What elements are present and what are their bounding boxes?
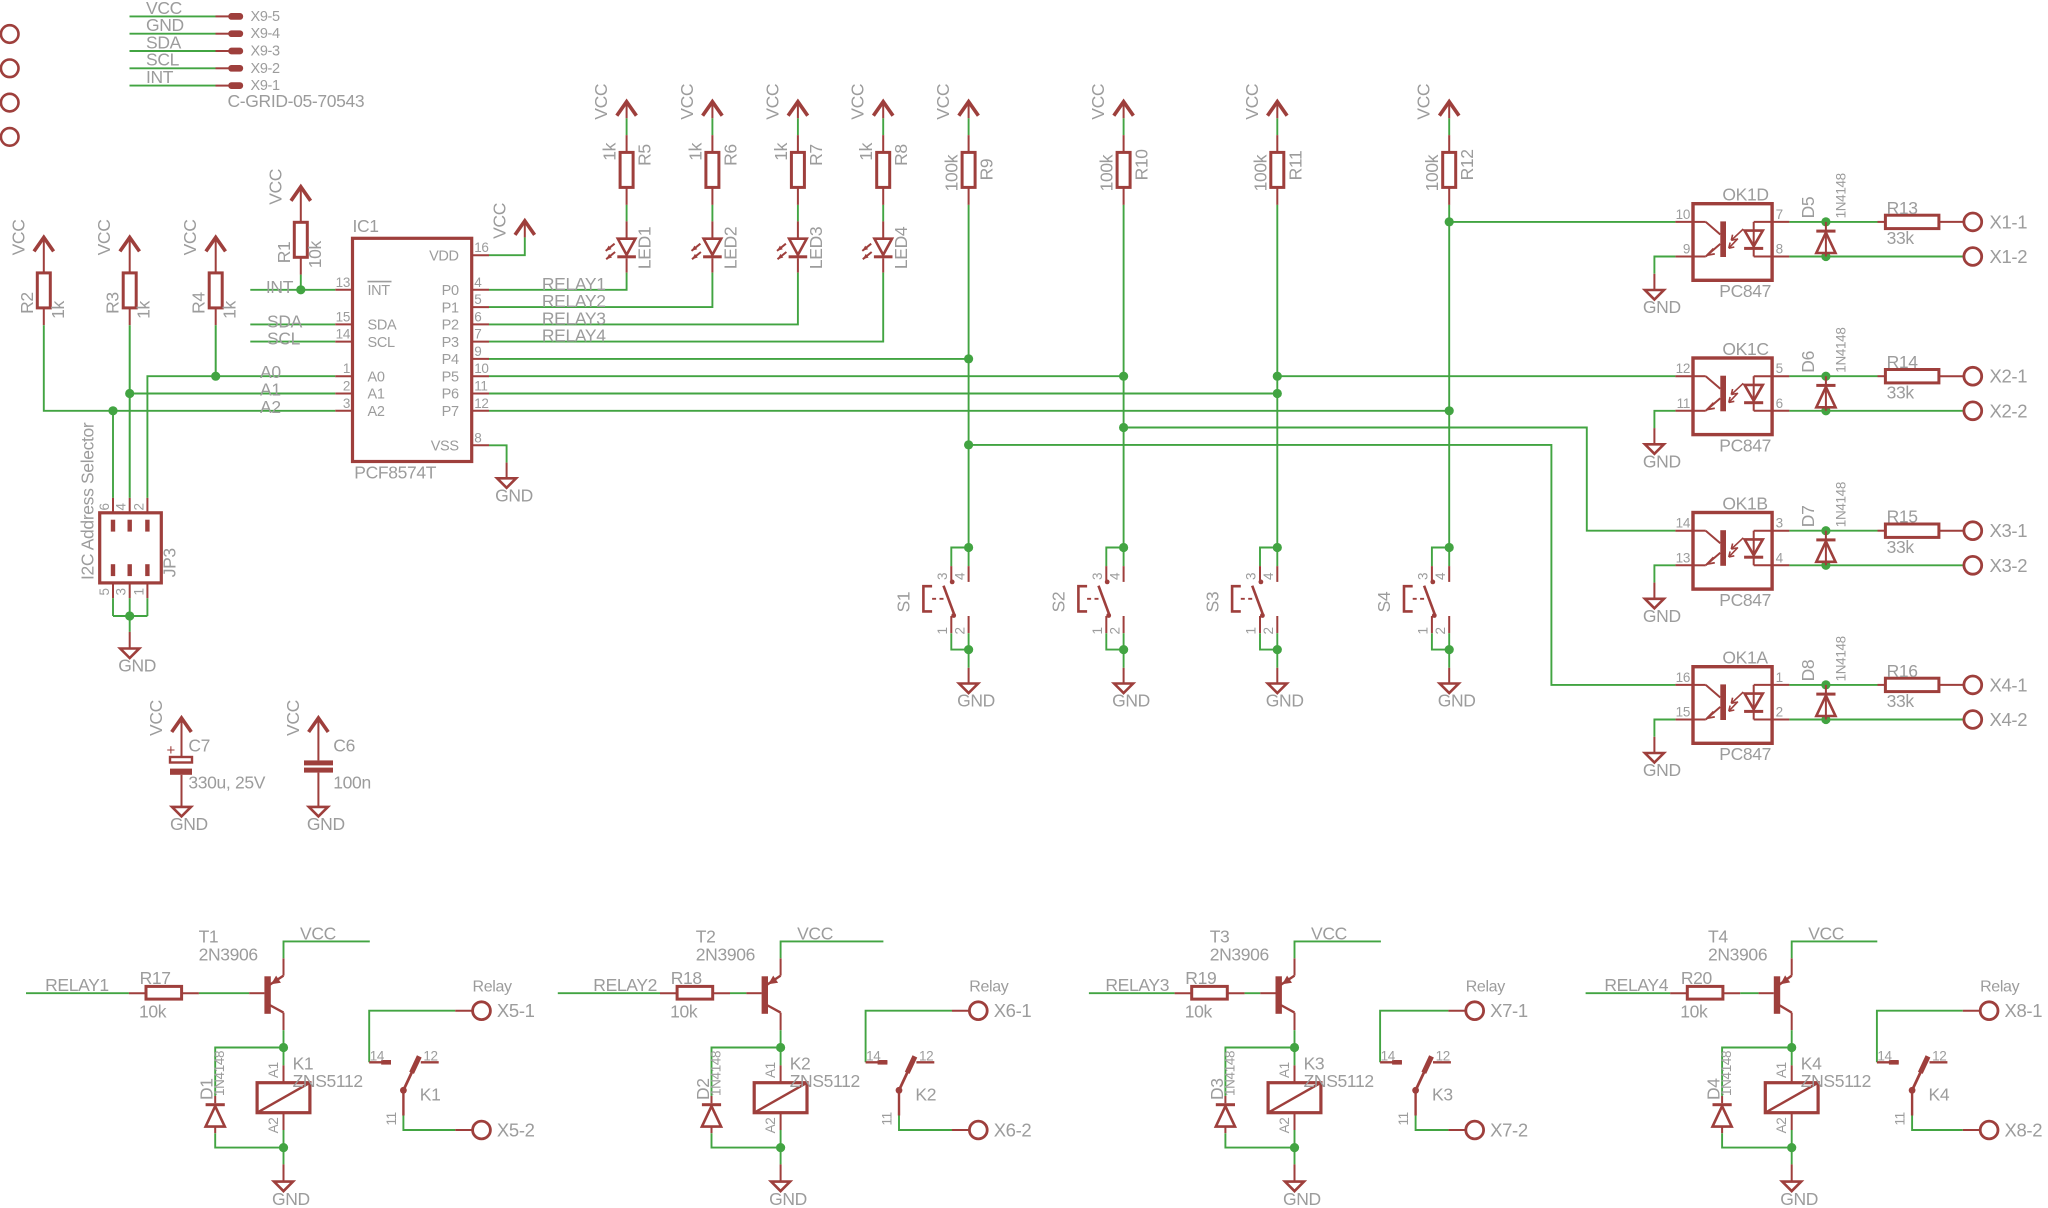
svg-text:VCC: VCC — [94, 219, 114, 255]
junction node K3 A2 — [1290, 1143, 1299, 1152]
wire net branch from R12 to optocoupler — [1449, 221, 1675, 223]
ground symbol at OK1D — [1645, 290, 1664, 300]
relay K1 contact pin 11 — [402, 1090, 404, 1115]
wire net OK1D anode row — [1789, 221, 1877, 223]
IC1 pin 1 A0 (left) — [335, 375, 352, 377]
IC1 pin 9 P4 (right) — [472, 358, 489, 360]
wire net VCC at T4 emitter — [1792, 941, 1878, 958]
svg-text:12: 12 — [1932, 1048, 1946, 1063]
svg-text:1N4148: 1N4148 — [1834, 327, 1849, 372]
IC1 pin 12 P7 (right) — [472, 410, 489, 412]
resistor R11 100k — [1271, 152, 1284, 187]
svg-text:R9: R9 — [977, 159, 997, 181]
wire net OK1B anode row — [1789, 530, 1877, 532]
wire D4 anode to A2 node — [1722, 1133, 1792, 1147]
JP3 pin 6 (top) and pin 5 (bottom) — [112, 498, 114, 513]
OK1B pin 3 (anode) — [1772, 530, 1789, 532]
svg-text:VCC: VCC — [283, 700, 303, 736]
svg-text:GND: GND — [1643, 297, 1681, 317]
svg-text:1k: 1k — [771, 142, 791, 160]
svg-text:K4: K4 — [1929, 1085, 1950, 1105]
svg-text:11: 11 — [384, 1112, 399, 1125]
svg-text:10: 10 — [1676, 207, 1690, 222]
svg-text:A1: A1 — [763, 1062, 778, 1078]
svg-text:4: 4 — [474, 275, 482, 290]
wire net from IC1 P-row to R9 — [489, 358, 969, 360]
svg-text:Relay: Relay — [1466, 978, 1506, 995]
svg-text:2: 2 — [952, 627, 967, 634]
pin wire below R3 — [129, 308, 131, 325]
svg-text:X7-1: X7-1 — [1490, 1000, 1528, 1021]
junction node K3 A1 — [1290, 1043, 1299, 1052]
OK1A pin 16 (collector) — [1675, 684, 1693, 686]
svg-text:100n: 100n — [333, 772, 371, 792]
svg-text:GND: GND — [1780, 1189, 1818, 1208]
svg-text:SCL: SCL — [267, 329, 301, 349]
svg-text:GND: GND — [118, 656, 156, 676]
connector pad X5-1 — [473, 1002, 491, 1020]
svg-text:9: 9 — [1683, 242, 1690, 257]
ground symbol below K1 — [274, 1182, 293, 1192]
ground symbol below S1 — [959, 684, 978, 694]
wire OK1C emitter to ground — [1654, 411, 1675, 428]
jumper block JP3 body — [100, 513, 162, 583]
svg-text:PCF8574T: PCF8574T — [354, 463, 436, 483]
OK1D pin 10 (collector) — [1675, 221, 1693, 223]
VCC supply symbol above R10 — [1114, 102, 1134, 116]
svg-text:6: 6 — [474, 309, 481, 324]
svg-text:VCC: VCC — [1242, 84, 1262, 120]
wire net relay contact 14 to pad X5-1 — [369, 1011, 455, 1063]
svg-text:PC847: PC847 — [1719, 435, 1771, 455]
switch S1 actuator bracket — [923, 586, 932, 611]
junction node K1 A1 — [279, 1043, 288, 1052]
pin wire below R2 — [43, 308, 45, 325]
relay K4 contact pin 12 — [1930, 1061, 1948, 1063]
pin wire R8 to LED4 — [882, 187, 884, 205]
wire net from IC1 P-row to R12 — [489, 410, 1449, 412]
VCC supply symbol above R3 — [120, 237, 140, 251]
svg-text:4: 4 — [1107, 572, 1122, 580]
svg-text:VCC: VCC — [1311, 923, 1347, 943]
svg-text:P7: P7 — [442, 404, 459, 420]
relay coil K2 ZNS5112 — [780, 1048, 782, 1066]
wire K3 A2 to ground — [1294, 1148, 1296, 1165]
diode D6 1N4148 — [1825, 376, 1827, 411]
IC1 pin 8 VSS (right) — [472, 444, 489, 446]
wire D3 anode to A2 node — [1225, 1133, 1294, 1147]
svg-text:R15: R15 — [1887, 507, 1918, 527]
switch S2 top connection — [1119, 543, 1128, 552]
transistor T2 2N3906 (PNP) — [762, 976, 768, 1014]
svg-text:R18: R18 — [671, 968, 702, 988]
resistor R14 33k — [1878, 375, 1886, 377]
svg-text:12: 12 — [1436, 1048, 1450, 1063]
svg-text:ZNS5112: ZNS5112 — [1801, 1071, 1871, 1091]
svg-text:R8: R8 — [891, 144, 911, 166]
wire net INT to IC1 pin 13 — [250, 289, 335, 291]
wire net relay contact 14 to pad X7-1 — [1380, 1011, 1448, 1063]
svg-text:33k: 33k — [1887, 383, 1915, 403]
svg-text:1N4148: 1N4148 — [1719, 1051, 1734, 1096]
pin wire below R1 — [300, 257, 302, 274]
wire net VCC at T3 emitter — [1295, 941, 1381, 958]
wire net OK1D cathode row to X1-2 — [1789, 256, 1963, 258]
connector pad X7-1 — [1466, 1002, 1484, 1020]
svg-text:VCC: VCC — [180, 219, 200, 255]
IC1 pin 7 P3 (right) — [472, 341, 489, 343]
wire K2 A2 to ground — [780, 1148, 782, 1165]
svg-text:ZNS5112: ZNS5112 — [1304, 1071, 1374, 1091]
svg-text:R11: R11 — [1285, 151, 1305, 181]
svg-text:X1-2: X1-2 — [1990, 246, 2028, 267]
relay coil K1 ZNS5112 — [283, 1048, 285, 1066]
svg-text:7: 7 — [1776, 207, 1783, 222]
diode D7 1N4148 — [1825, 531, 1827, 566]
svg-text:JP3: JP3 — [160, 548, 180, 577]
ground symbol below K3 — [1285, 1182, 1304, 1192]
svg-text:1: 1 — [1776, 670, 1783, 685]
svg-text:1k: 1k — [134, 301, 154, 319]
svg-text:3: 3 — [1244, 573, 1259, 580]
JP3 pin 2 (top) and pin 1 (bottom) — [146, 498, 148, 513]
svg-text:14: 14 — [866, 1048, 881, 1063]
svg-text:7: 7 — [474, 327, 481, 342]
junction node K4 A2 — [1787, 1143, 1796, 1152]
resistor R3 1k — [123, 273, 136, 308]
OK1D pin 7 (anode) — [1772, 221, 1789, 223]
svg-text:1: 1 — [131, 588, 146, 595]
wire net pin 11 to pad X7-2 — [1416, 1116, 1449, 1131]
svg-text:3: 3 — [935, 573, 950, 580]
ground symbol at OK1C — [1645, 444, 1664, 454]
svg-text:11: 11 — [1893, 1112, 1908, 1125]
left edge connector circle 1 — [1, 25, 19, 43]
svg-text:VCC: VCC — [762, 84, 782, 120]
switch S3 bottom connection — [1259, 616, 1261, 633]
svg-text:15: 15 — [336, 309, 350, 324]
svg-text:3: 3 — [1776, 516, 1783, 531]
wire net OK1A anode row — [1789, 684, 1877, 686]
svg-text:1N4148: 1N4148 — [212, 1051, 227, 1096]
wire net pin 11 to pad X8-2 — [1912, 1116, 1963, 1131]
junction node R11 branch — [1273, 372, 1282, 381]
switch S2 contacts and lever — [1105, 580, 1110, 585]
svg-text:16: 16 — [474, 240, 488, 255]
LED LED2 — [704, 239, 722, 255]
ground symbol at OK1B — [1645, 599, 1664, 609]
connector pad X3-2 — [1964, 556, 1982, 574]
svg-text:C7: C7 — [188, 736, 210, 756]
OK1B pin 4 (cathode) — [1772, 564, 1789, 566]
svg-text:R6: R6 — [720, 144, 740, 166]
svg-text:P3: P3 — [442, 335, 459, 351]
svg-text:3: 3 — [343, 396, 350, 411]
switch S1 bottom connection — [950, 616, 952, 633]
svg-text:2N3906: 2N3906 — [696, 944, 755, 964]
wire R20 to T4 base — [1723, 992, 1740, 994]
svg-text:12: 12 — [919, 1048, 933, 1063]
OK1D pin 8 (cathode) — [1772, 256, 1789, 258]
svg-text:VSS: VSS — [431, 439, 459, 455]
LED LED1 — [618, 239, 636, 255]
svg-text:4: 4 — [952, 572, 967, 580]
svg-text:11: 11 — [880, 1112, 895, 1125]
svg-text:10k: 10k — [1185, 1002, 1213, 1022]
wire net RELAY2 into R18 — [558, 992, 660, 994]
svg-text:GND: GND — [1643, 760, 1681, 780]
transistor T1 2N3906 (PNP) — [264, 976, 270, 1014]
switch S3 contacts and lever — [1259, 580, 1264, 585]
svg-text:2: 2 — [131, 503, 146, 510]
IC1 pin 14 SCL (left) — [335, 341, 352, 343]
relay K4 contact lever — [1909, 1087, 1916, 1094]
svg-text:S3: S3 — [1202, 592, 1222, 613]
svg-text:R4: R4 — [189, 292, 209, 314]
svg-text:X3-2: X3-2 — [1990, 555, 2028, 576]
svg-text:GND: GND — [957, 691, 995, 711]
connector pad X1-2 — [1964, 248, 1982, 266]
svg-text:INT: INT — [146, 67, 174, 87]
svg-text:9: 9 — [474, 344, 481, 359]
svg-text:A2: A2 — [266, 1118, 281, 1134]
wire OK1A emitter to ground — [1654, 720, 1675, 737]
resistor R16 33k — [1878, 684, 1886, 686]
junction node R9 branch — [964, 440, 973, 449]
svg-text:R17: R17 — [140, 968, 171, 988]
svg-text:GND: GND — [1112, 691, 1150, 711]
svg-text:A1: A1 — [1774, 1062, 1789, 1078]
wire T1 collector to K1 coil — [283, 1030, 285, 1047]
svg-text:RELAY3: RELAY3 — [1105, 975, 1169, 995]
switch S4 top connection — [1445, 543, 1454, 552]
resistor R1 10k — [294, 222, 307, 257]
switch S3 actuator bracket — [1232, 586, 1241, 611]
svg-text:4: 4 — [1261, 572, 1276, 580]
wire net branch from R10 to optocoupler — [1124, 428, 1676, 531]
junction node D6 bottom — [1821, 406, 1830, 415]
resistor R6 1k — [706, 152, 719, 187]
IC1 pin 2 A1 (left) — [335, 393, 352, 395]
diode D2 1N4148 flyback — [711, 1096, 713, 1103]
wire net relay contact 14 to pad X8-1 — [1877, 1011, 1963, 1063]
svg-text:15: 15 — [1676, 705, 1690, 720]
svg-text:C6: C6 — [333, 736, 355, 756]
svg-text:ZNS5112: ZNS5112 — [293, 1071, 363, 1091]
svg-text:2: 2 — [1433, 627, 1448, 634]
OK1A light arrows — [1731, 692, 1743, 703]
switch S4 bottom connection — [1431, 616, 1433, 633]
left edge connector circle 3 — [1, 94, 19, 112]
pin wire below R9 — [968, 187, 970, 205]
svg-text:RELAY2: RELAY2 — [593, 975, 657, 995]
OK1C pin 11 (emitter) — [1675, 410, 1693, 412]
junction node K2 A1 — [776, 1043, 785, 1052]
svg-text:IC1: IC1 — [353, 216, 379, 236]
svg-text:Relay: Relay — [969, 978, 1009, 995]
resistor R15 33k — [1878, 530, 1886, 532]
diode D5 1N4148 — [1825, 222, 1827, 257]
wire net from IC1 P-row to R11 — [489, 393, 1277, 395]
wire net SCL to connector X9-2 — [130, 67, 216, 69]
svg-text:GND: GND — [170, 814, 208, 834]
OK1C internal LED — [1754, 375, 1772, 377]
svg-text:2: 2 — [1776, 705, 1783, 720]
svg-text:P4: P4 — [442, 352, 459, 368]
svg-text:2: 2 — [1261, 627, 1276, 634]
relay K2 contact pin 14 — [866, 1061, 888, 1063]
OK1B pin 14 (collector) — [1675, 530, 1693, 532]
connector pad X2-1 — [1964, 367, 1982, 385]
wire net RELAY4 into R20 — [1586, 992, 1671, 994]
svg-text:2N3906: 2N3906 — [1708, 944, 1767, 964]
svg-text:GND: GND — [307, 814, 345, 834]
wire R17 to T1 base — [182, 992, 199, 994]
svg-text:12: 12 — [1676, 361, 1690, 376]
junction node D8 top — [1821, 680, 1830, 689]
svg-text:2N3906: 2N3906 — [199, 944, 258, 964]
svg-text:1k: 1k — [600, 142, 620, 160]
svg-text:GND: GND — [1643, 452, 1681, 472]
svg-text:P5: P5 — [442, 369, 459, 385]
IC1 pin 10 P5 (right) — [472, 375, 489, 377]
wire net VCC to connector X9-5 — [130, 15, 216, 17]
relay K2 contact pin 12 — [916, 1061, 934, 1063]
svg-text:LED3: LED3 — [806, 227, 826, 269]
wire net A2 from R2 down and right — [44, 325, 113, 411]
wire net A2 row to IC1 pin 3 — [113, 410, 335, 412]
svg-text:2: 2 — [1107, 627, 1122, 634]
svg-text:10k: 10k — [1680, 1002, 1708, 1022]
svg-text:33k: 33k — [1887, 691, 1915, 711]
svg-text:GND: GND — [769, 1189, 807, 1208]
VCC supply symbol above R2 — [34, 237, 54, 251]
svg-text:INT: INT — [368, 283, 391, 299]
svg-text:X9-3: X9-3 — [251, 44, 281, 60]
svg-text:X2-2: X2-2 — [1990, 400, 2028, 421]
connector pad X6-2 — [969, 1121, 987, 1139]
wire branch to D4 — [1722, 1048, 1792, 1096]
svg-text:A2: A2 — [1774, 1118, 1789, 1134]
svg-text:A2: A2 — [763, 1118, 778, 1134]
svg-text:8: 8 — [1776, 242, 1783, 257]
svg-text:A1: A1 — [368, 387, 385, 403]
svg-text:2N3906: 2N3906 — [1210, 944, 1269, 964]
diode D1 1N4148 flyback — [214, 1096, 216, 1103]
svg-text:X7-2: X7-2 — [1490, 1120, 1528, 1141]
svg-text:1N4148: 1N4148 — [709, 1051, 724, 1096]
svg-text:PC847: PC847 — [1719, 590, 1771, 610]
optocoupler OK1D PC847 body — [1693, 204, 1772, 281]
svg-text:14: 14 — [336, 327, 351, 342]
svg-text:1k: 1k — [220, 301, 240, 319]
svg-text:T3: T3 — [1210, 926, 1230, 946]
relay coil K4 ZNS5112 — [1791, 1048, 1793, 1066]
wire D2 anode to A2 node — [712, 1133, 781, 1147]
svg-text:LED1: LED1 — [635, 227, 655, 269]
pin wire R5 to LED1 — [626, 187, 628, 205]
left edge connector circle 2 — [1, 60, 19, 78]
connector pin X9-4 — [229, 31, 242, 36]
wire net RELAY1 from LED1 to IC1 — [626, 258, 628, 272]
wire net A1 row to IC1 pin 2 — [130, 393, 336, 395]
svg-text:14: 14 — [1676, 516, 1691, 531]
OK1D light arrows — [1731, 229, 1743, 240]
svg-text:GND: GND — [1266, 691, 1304, 711]
IC1 pin 6 P2 (right) — [472, 323, 489, 325]
IC1 pin 13 INT (left) — [335, 289, 352, 291]
connector pad X4-1 — [1964, 676, 1982, 694]
wire JP3 bottom pins to ground — [113, 615, 147, 617]
svg-text:VCC: VCC — [591, 84, 611, 120]
junction node D5 bottom — [1821, 252, 1830, 261]
svg-text:X9-2: X9-2 — [251, 61, 281, 77]
svg-text:14: 14 — [370, 1048, 385, 1063]
svg-text:GND: GND — [495, 486, 533, 506]
svg-text:100k: 100k — [1422, 154, 1442, 191]
connector pin X9-5 — [229, 14, 242, 19]
svg-text:4: 4 — [1776, 550, 1784, 565]
svg-text:P1: P1 — [442, 300, 459, 316]
OK1A pin 15 (emitter) — [1675, 719, 1693, 721]
svg-text:SDA: SDA — [368, 318, 397, 334]
pin wire R7 to LED3 — [797, 187, 799, 205]
svg-text:R12: R12 — [1457, 149, 1477, 180]
wire R18 to T2 base — [713, 992, 730, 994]
connector pad X7-2 — [1466, 1121, 1484, 1139]
wire net pin 11 to pad X6-2 — [899, 1116, 952, 1131]
svg-text:R19: R19 — [1185, 968, 1216, 988]
svg-text:14: 14 — [1877, 1048, 1892, 1063]
svg-text:D7: D7 — [1798, 506, 1818, 528]
transistor T4 2N3906 (PNP) — [1774, 976, 1780, 1014]
svg-text:A2: A2 — [368, 404, 385, 420]
svg-text:X9-4: X9-4 — [251, 26, 281, 42]
svg-text:VCC: VCC — [8, 219, 28, 255]
ground symbol at IC1 VSS — [497, 478, 516, 488]
diode D4 1N4148 flyback — [1721, 1096, 1723, 1103]
svg-text:1N4148: 1N4148 — [1834, 173, 1849, 218]
resistor R2 1k — [37, 273, 50, 308]
svg-text:X5-2: X5-2 — [497, 1120, 535, 1141]
svg-text:GND: GND — [1283, 1189, 1321, 1208]
junction node A1/R3 — [125, 389, 134, 398]
svg-text:OK1B: OK1B — [1722, 493, 1767, 513]
ground symbol below K4 — [1782, 1182, 1801, 1192]
resistor R7 1k — [791, 152, 804, 187]
svg-text:T1: T1 — [199, 926, 219, 946]
ground symbol below S3 — [1268, 684, 1287, 694]
wire net SDA to IC1 pin 15 — [250, 323, 335, 325]
junction node R11 / P-row — [1273, 389, 1282, 398]
IC1 pin 11 P6 (right) — [472, 393, 489, 395]
IC1 pin 4 P0 (right) — [472, 289, 489, 291]
svg-text:X9-5: X9-5 — [251, 9, 281, 25]
svg-text:X3-1: X3-1 — [1990, 520, 2028, 541]
svg-text:VCC: VCC — [1808, 923, 1844, 943]
junction node K2 A2 — [776, 1143, 785, 1152]
svg-text:VDD: VDD — [429, 248, 459, 264]
junction node A2/R2 — [108, 406, 117, 415]
svg-text:X1-1: X1-1 — [1990, 211, 2028, 232]
optocoupler OK1A PC847 body — [1693, 667, 1772, 744]
VCC supply symbol at IC1 VDD — [515, 221, 535, 235]
wire net relay contact 14 to pad X6-1 — [866, 1011, 952, 1063]
relay K2 contact pin 11 — [898, 1090, 900, 1115]
resistor R18 10k — [677, 986, 713, 999]
svg-text:X8-1: X8-1 — [2005, 1000, 2043, 1021]
svg-text:A1: A1 — [266, 1062, 281, 1078]
